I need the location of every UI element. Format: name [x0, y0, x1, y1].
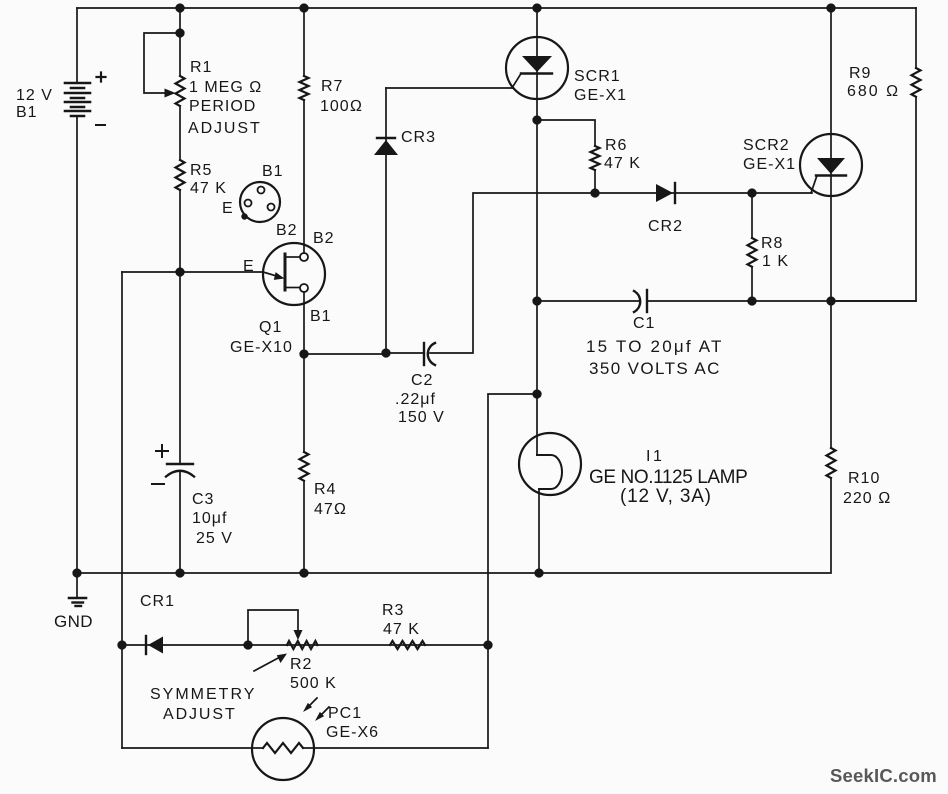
svg-text:GE-X1: GE-X1: [743, 156, 796, 173]
resistor R3: [390, 641, 425, 649]
resistor R1 potentiometer: [144, 8, 185, 160]
svg-text:R8: R8: [761, 235, 783, 252]
svg-text:B2: B2: [276, 222, 298, 239]
wire SCR1 gate: [386, 87, 512, 89]
resistor R8: [748, 193, 757, 301]
svg-text:R9: R9: [849, 65, 871, 82]
svg-text:GE-X10: GE-X10: [230, 339, 293, 356]
svg-text:SeekIC.com: SeekIC.com: [830, 765, 937, 786]
node top rail junction SCR1: [533, 4, 541, 12]
wire top supply rail: [77, 7, 916, 9]
node top rail junction SCR2: [827, 4, 835, 12]
svg-text:PERIOD: PERIOD: [189, 98, 256, 115]
node rail C3: [176, 569, 184, 577]
svg-text:I1: I1: [646, 448, 664, 465]
node lamp branch: [533, 390, 541, 398]
photocell PC1: [122, 718, 488, 780]
arrow light 2: [315, 707, 329, 721]
resistor R4: [300, 354, 309, 573]
svg-text:ADJUST: ADJUST: [188, 120, 262, 137]
node CR1 left: [118, 641, 126, 649]
wire branch to PC1 net: [488, 394, 537, 748]
svg-text:B1: B1: [262, 163, 284, 180]
arrow symmetry: [254, 654, 287, 672]
node R6 bottom: [591, 189, 599, 197]
wire bottom ground rail: [77, 572, 539, 574]
svg-text:.22μf: .22μf: [395, 391, 436, 408]
socket view B1: [240, 182, 280, 222]
svg-text:B2: B2: [313, 230, 335, 247]
arrow light 1: [303, 698, 317, 712]
node R6 branch: [533, 116, 541, 124]
svg-text:350 VOLTS AC: 350 VOLTS AC: [589, 359, 721, 378]
svg-text:47 K: 47 K: [604, 155, 641, 172]
svg-text:R6: R6: [605, 137, 627, 154]
svg-text:R7: R7: [321, 78, 343, 95]
svg-text:SCR2: SCR2: [743, 137, 790, 154]
svg-text:ADJUST: ADJUST: [163, 706, 237, 723]
svg-text:47 K: 47 K: [383, 621, 420, 638]
svg-text:R1: R1: [190, 59, 212, 76]
node E junction: [176, 268, 184, 276]
node rail lamp: [535, 569, 543, 577]
wire Q1 B1 down: [303, 292, 305, 354]
diode CR2: [656, 183, 675, 203]
svg-text:1 K: 1 K: [762, 253, 789, 270]
svg-text:150 V: 150 V: [398, 409, 445, 426]
svg-text:GE NO.1125 LAMP: GE NO.1125 LAMP: [589, 467, 747, 488]
node lamp top: [533, 297, 541, 305]
diode CR1: [146, 636, 163, 654]
node R3 right: [484, 641, 492, 649]
node CR3 C2 junction: [382, 349, 390, 357]
transistor Q1: [263, 243, 325, 305]
capacitor C1: [634, 290, 647, 312]
svg-text:25 V: 25 V: [196, 530, 233, 547]
resistor R2 potentiometer: [248, 610, 317, 649]
lamp I1: [519, 433, 581, 573]
battery B1: [65, 8, 106, 573]
node top rail junction R7: [300, 4, 308, 12]
svg-text:PC1: PC1: [328, 705, 362, 722]
node R2 tap: [244, 641, 252, 649]
svg-text:E: E: [243, 258, 255, 275]
svg-text:100Ω: 100Ω: [320, 98, 363, 115]
svg-text:47 K: 47 K: [190, 180, 227, 197]
svg-text:R2: R2: [290, 656, 312, 673]
svg-text:C2: C2: [411, 372, 433, 389]
svg-text:SYMMETRY: SYMMETRY: [150, 686, 256, 703]
wire left vertical to CR1 net: [121, 272, 123, 748]
svg-text:CR1: CR1: [140, 593, 175, 610]
resistor R10: [539, 301, 836, 573]
svg-text:12 V: 12 V: [16, 87, 53, 104]
resistor R5: [176, 160, 185, 272]
node top rail junction R1: [176, 4, 184, 12]
svg-text:Q1: Q1: [259, 319, 282, 336]
resistor R6: [537, 120, 600, 193]
SCR2: [800, 8, 862, 301]
capacitor C3: [152, 272, 194, 573]
svg-text:CR2: CR2: [648, 218, 683, 235]
resistor R7: [300, 8, 309, 253]
svg-text:1 MEG Ω: 1 MEG Ω: [189, 79, 262, 96]
wire C2 left: [304, 353, 424, 354]
svg-text:C1: C1: [633, 315, 655, 332]
svg-text:500 K: 500 K: [290, 675, 337, 692]
svg-text:GE-X6: GE-X6: [326, 724, 379, 741]
svg-text:SCR1: SCR1: [574, 68, 621, 85]
ground: [69, 573, 86, 606]
wire C1 line: [537, 300, 916, 302]
svg-text:R10: R10: [848, 470, 880, 487]
svg-text:R3: R3: [382, 602, 404, 619]
wire emitter: [122, 271, 263, 273]
resistor R9: [831, 8, 921, 301]
svg-text:CR3: CR3: [401, 129, 436, 146]
svg-text:B1: B1: [16, 104, 38, 121]
svg-text:10μf: 10μf: [192, 510, 227, 527]
node rail R4: [300, 569, 308, 577]
diode CR3: [374, 88, 398, 353]
svg-text:GND: GND: [54, 612, 93, 631]
SCR1: [506, 37, 568, 99]
svg-text:47Ω: 47Ω: [314, 501, 347, 518]
node R8 bottom: [748, 297, 756, 305]
svg-text:R4: R4: [314, 481, 336, 498]
svg-text:C3: C3: [192, 491, 214, 508]
wire CR1 R2 R3 line: [122, 644, 488, 646]
svg-text:15 TO 20μf AT: 15 TO 20μf AT: [586, 337, 724, 356]
svg-text:GE-X1: GE-X1: [574, 87, 627, 104]
wire SCR1 cathode line: [536, 8, 538, 455]
wire C2 to CR2 net: [430, 193, 812, 353]
capacitor C2: [424, 343, 435, 365]
node SCR2 cathode line: [827, 297, 835, 305]
svg-text:E: E: [222, 200, 234, 217]
node R8 top: [748, 189, 756, 197]
svg-text:220 Ω: 220 Ω: [843, 490, 891, 507]
svg-text:B1: B1: [310, 308, 332, 325]
node B1 junction: [300, 350, 308, 358]
svg-text:R5: R5: [190, 162, 212, 179]
node rail battery: [73, 569, 81, 577]
svg-text:(12 V, 3A): (12 V, 3A): [620, 486, 712, 507]
svg-text:680 Ω: 680 Ω: [847, 83, 900, 100]
